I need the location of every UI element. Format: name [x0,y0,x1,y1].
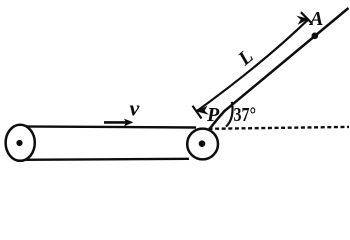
tick at A end [301,12,313,24]
dashed horizontal reference line [209,127,350,129]
tick at P end [193,106,202,119]
right pulley axle dot [199,140,206,147]
svg-text:P: P [206,104,220,126]
incline line P to top right [209,8,348,129]
angle arc [226,102,233,127]
arrowhead at P end [196,106,209,115]
left pulley [6,125,35,161]
belt top line [14,126,196,127]
dimension line L [193,12,313,118]
right pulley [187,129,218,160]
svg-text:A: A [308,8,323,30]
belt velocity arrow [104,119,134,127]
point A dot [312,33,319,40]
svg-text:37°: 37° [234,104,257,126]
svg-text:v: v [130,96,140,121]
arrowhead at A end [296,16,309,25]
belt bottom line [20,159,189,160]
left pulley axle dot [16,140,22,146]
